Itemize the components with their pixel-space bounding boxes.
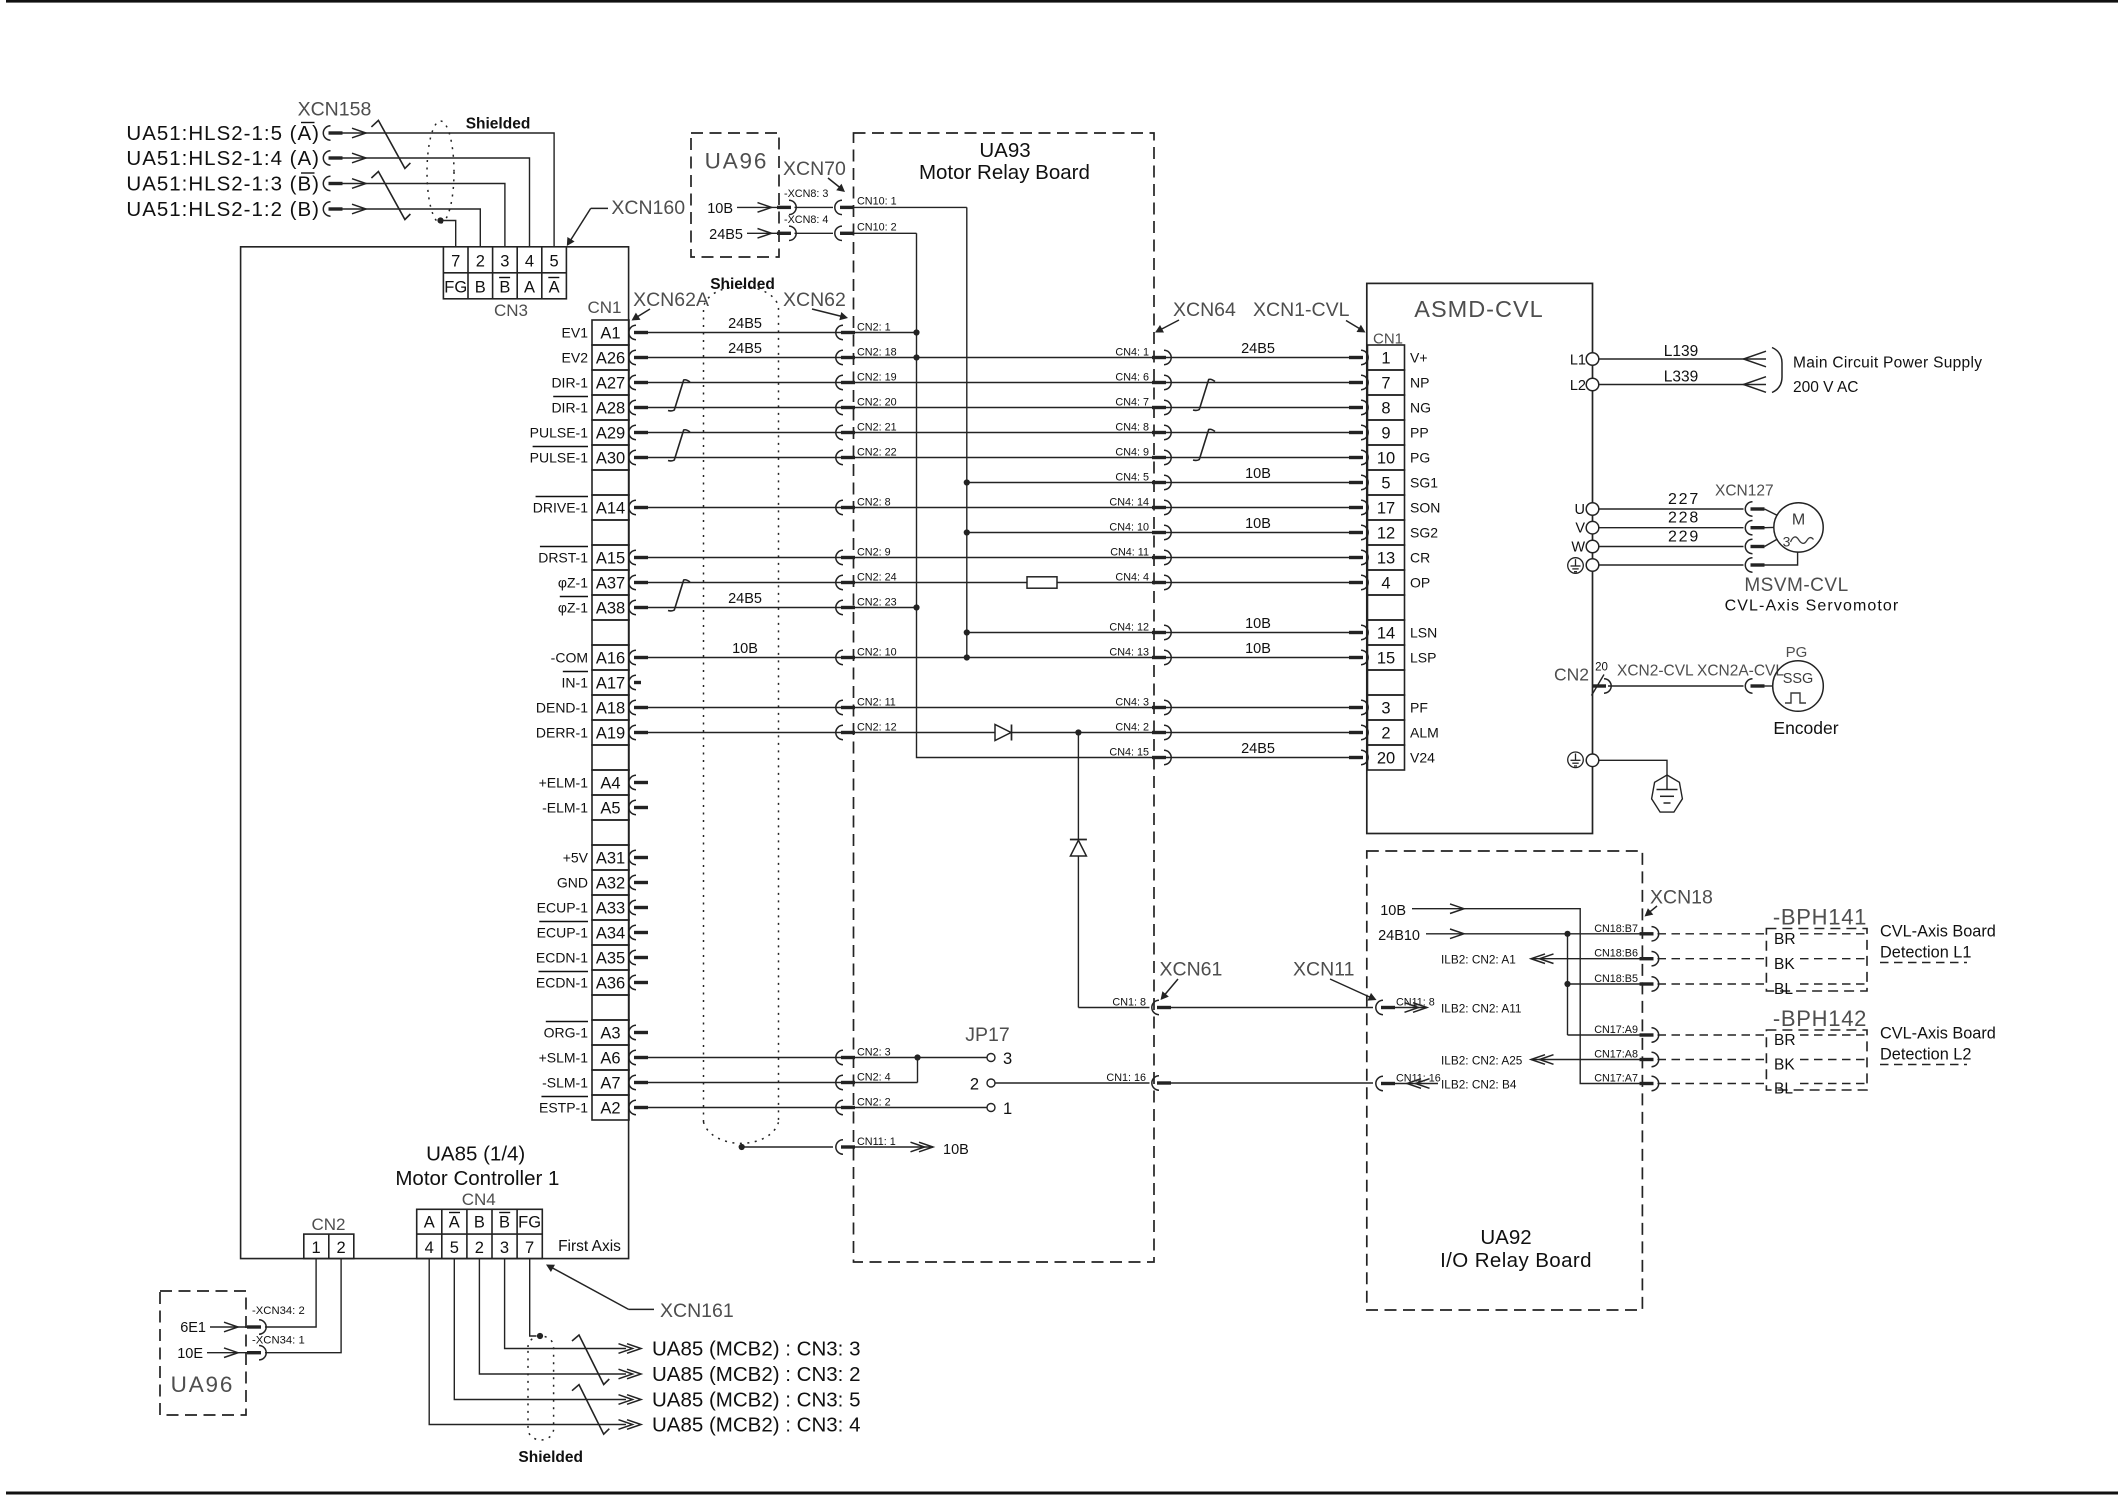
svg-text:A3: A3 bbox=[600, 1024, 620, 1042]
svg-text:CN2: CN2 bbox=[1554, 665, 1589, 685]
pin box empty row 6 bbox=[592, 470, 629, 495]
svg-text:LSP: LSP bbox=[1410, 650, 1436, 666]
connector XCN1-CVL pin row y=482.5 bbox=[1349, 475, 1368, 489]
wire CN4 to UA85 (MCB2) : CN3: 3 bbox=[505, 1259, 626, 1349]
svg-text:CN2: 4: CN2: 4 bbox=[857, 1072, 891, 1084]
connector stub A3 bbox=[629, 1025, 648, 1039]
pin box empty row 12 bbox=[592, 620, 629, 645]
svg-text:2: 2 bbox=[1381, 724, 1390, 742]
svg-text:10B: 10B bbox=[1245, 616, 1271, 632]
svg-text:XCN161: XCN161 bbox=[660, 1300, 734, 1322]
svg-text:1: 1 bbox=[312, 1239, 321, 1257]
connector XCN1-CVL pin row y=582.5 bbox=[1349, 575, 1368, 589]
svg-text:A: A bbox=[524, 279, 535, 297]
svg-text:24B5: 24B5 bbox=[728, 316, 762, 332]
svg-text:CN17:A7: CN17:A7 bbox=[1594, 1073, 1638, 1085]
svg-text:XCN64: XCN64 bbox=[1173, 299, 1236, 321]
svg-text:CN17:A9: CN17:A9 bbox=[1594, 1024, 1638, 1036]
svg-text:2: 2 bbox=[476, 253, 485, 271]
pin box A15 row 9 bbox=[592, 545, 629, 570]
svg-text:GND: GND bbox=[557, 875, 588, 891]
connector stub A36 bbox=[629, 975, 648, 989]
connector CN18:B6 (XCN18) bbox=[1640, 952, 1659, 966]
svg-text:ECDN-1: ECDN-1 bbox=[536, 950, 588, 966]
svg-text:XCN70: XCN70 bbox=[783, 158, 846, 180]
svg-text:A26: A26 bbox=[596, 349, 625, 367]
svg-text:L139: L139 bbox=[1664, 343, 1698, 360]
svg-text:CN4: 9: CN4: 9 bbox=[1115, 447, 1149, 459]
svg-text:A30: A30 bbox=[596, 449, 625, 467]
connector CN4: 6 (XCN64) bbox=[1152, 375, 1171, 389]
svg-text:24B5: 24B5 bbox=[728, 591, 762, 607]
connector CN4: 7 (XCN64) bbox=[1152, 400, 1171, 414]
svg-text:DIR-1: DIR-1 bbox=[551, 375, 588, 391]
svg-text:14: 14 bbox=[1377, 624, 1395, 642]
svg-text:9: 9 bbox=[1381, 424, 1390, 442]
svg-text:DIR-1: DIR-1 bbox=[551, 400, 588, 416]
svg-text:-XCN34: 2: -XCN34: 2 bbox=[252, 1305, 305, 1317]
wire 24B10 branch down bbox=[1567, 934, 1569, 1035]
pin box A27 row 2 bbox=[592, 370, 629, 395]
connector CN2: 12 (XCN62) bbox=[836, 725, 855, 739]
svg-text:1: 1 bbox=[1003, 1100, 1012, 1118]
svg-text:17: 17 bbox=[1377, 499, 1395, 517]
svg-text:CN4: 6: CN4: 6 bbox=[1115, 372, 1149, 384]
pin box A2 row 31 bbox=[592, 1095, 629, 1120]
wire CN2:2 to XCN34:1 bbox=[265, 1259, 341, 1353]
overbars on CN3 B-bar and A-bar bbox=[499, 277, 510, 279]
pin box A1 row 0 bbox=[592, 320, 629, 345]
connector CN18:B7 (XCN18) bbox=[1640, 927, 1659, 941]
dashed wire CN17:A8 to BPH bbox=[1658, 1059, 1767, 1061]
svg-text:A6: A6 bbox=[600, 1049, 620, 1067]
svg-text:XCN62A: XCN62A bbox=[633, 289, 709, 311]
connector CN17:A9 (XCN18) bbox=[1640, 1028, 1659, 1042]
wire UA51 row 2 to CN3 bbox=[352, 153, 366, 163]
pin box A26 row 1 bbox=[592, 345, 629, 370]
shield ellipse (bottom) bbox=[528, 1336, 554, 1440]
svg-text:PF: PF bbox=[1410, 700, 1428, 716]
svg-text:ECUP-1: ECUP-1 bbox=[537, 900, 589, 916]
svg-text:JP17: JP17 bbox=[965, 1024, 1009, 1046]
svg-text:5: 5 bbox=[1381, 474, 1390, 492]
pin box A3 row 28 bbox=[592, 1020, 629, 1045]
JP17 pin 1 bbox=[987, 1104, 995, 1112]
svg-text:BL: BL bbox=[1774, 981, 1793, 998]
svg-text:ILB2: CN2: B4: ILB2: CN2: B4 bbox=[1441, 1078, 1517, 1092]
svg-text:UA51:HLS2-1:2 (B): UA51:HLS2-1:2 (B) bbox=[126, 198, 320, 221]
connector UA51 row 4 bbox=[323, 202, 342, 216]
svg-text:XCN62: XCN62 bbox=[783, 289, 846, 311]
svg-text:SG2: SG2 bbox=[1410, 525, 1438, 541]
wire CN18:B6 out bbox=[1531, 958, 1640, 960]
PE ground glyph (motor) bbox=[1568, 558, 1584, 574]
svg-text:DEND-1: DEND-1 bbox=[536, 700, 588, 716]
svg-text:φZ-1: φZ-1 bbox=[558, 575, 588, 591]
svg-text:Main Circuit Power Supply: Main Circuit Power Supply bbox=[1793, 355, 1982, 372]
connector XCN1-CVL pin row y=407.5 bbox=[1349, 400, 1368, 414]
connector CN11:1 bbox=[836, 1140, 855, 1154]
wires into motor bbox=[1765, 509, 1778, 516]
wire A1/CN2:1 bbox=[647, 332, 917, 334]
svg-text:10B: 10B bbox=[1380, 903, 1406, 919]
svg-text:XCN61: XCN61 bbox=[1160, 959, 1223, 981]
connector stub A17 bbox=[629, 675, 641, 689]
svg-text:I/O Relay Board: I/O Relay Board bbox=[1440, 1249, 1592, 1272]
connector XCN1-CVL pin row y=757.5 bbox=[1349, 750, 1368, 764]
pin box A14 row 7 bbox=[592, 495, 629, 520]
connector stub A5 bbox=[629, 800, 648, 814]
svg-text:A17: A17 bbox=[596, 674, 625, 692]
svg-text:10B: 10B bbox=[943, 1142, 969, 1158]
svg-text:CN1: CN1 bbox=[587, 298, 621, 317]
connector CN10:1 bbox=[795, 206, 834, 208]
svg-text:8: 8 bbox=[1381, 399, 1390, 417]
svg-text:24B10: 24B10 bbox=[1378, 928, 1420, 944]
svg-text:V+: V+ bbox=[1410, 350, 1428, 366]
wire A37 with resistor bbox=[647, 582, 1027, 584]
connector stub A37 bbox=[629, 575, 648, 589]
svg-text:UA92: UA92 bbox=[1480, 1226, 1531, 1249]
connector CN17:A8 (XCN18) bbox=[1640, 1052, 1659, 1066]
svg-text:A38: A38 bbox=[596, 599, 625, 617]
pin box empty row 20 bbox=[592, 820, 629, 845]
svg-text:10B: 10B bbox=[1245, 516, 1271, 532]
dashed wire CN17:A9 to BPH bbox=[1658, 1034, 1767, 1036]
svg-text:A15: A15 bbox=[596, 549, 625, 567]
earth ground symbol bbox=[1652, 775, 1683, 812]
svg-text:4: 4 bbox=[525, 253, 534, 271]
dashed wire CN18:B5 to BPH bbox=[1658, 983, 1767, 985]
svg-text:24B5: 24B5 bbox=[728, 341, 762, 357]
connector CN4: 1 (XCN64) bbox=[1152, 350, 1171, 364]
svg-text:15: 15 bbox=[1377, 649, 1395, 667]
svg-text:B: B bbox=[499, 1214, 510, 1232]
wire A26..A30 rows through to ASMD bbox=[647, 357, 1350, 359]
wire L139 bbox=[1599, 358, 1766, 360]
connector UA51 row 1 bbox=[323, 126, 342, 140]
JP17 pin 2 bbox=[987, 1079, 995, 1087]
shield bundle dotted outline (XCN62A cable) bbox=[704, 287, 779, 1123]
dashed wire CN17:A7 to BPH bbox=[1658, 1083, 1767, 1085]
svg-text:UA85 (1/4): UA85 (1/4) bbox=[426, 1143, 525, 1166]
wires U V W to XCN127 bbox=[1599, 508, 1744, 510]
wire A2/CN2:2 to JP17 pin1 bbox=[647, 1107, 987, 1109]
svg-text:CN1: 8: CN1: 8 bbox=[1112, 997, 1146, 1009]
connector stub A30 bbox=[629, 450, 648, 464]
wire UA51 row 1 to CN3 bbox=[352, 128, 366, 138]
pin box A36 row 26 bbox=[592, 970, 629, 995]
pin box ASMD CN1 10 bbox=[1368, 445, 1405, 470]
connector XCN1-CVL pin row y=632.5 bbox=[1349, 625, 1368, 639]
arrow to ILB2: CN2: A11 bbox=[1395, 1007, 1428, 1009]
pin box ASMD CN1 13 bbox=[1368, 545, 1405, 570]
svg-text:A5: A5 bbox=[600, 799, 620, 817]
svg-text:6E1: 6E1 bbox=[180, 1320, 206, 1336]
wire encoder bbox=[1608, 685, 1744, 687]
connector CN4: 15 (XCN64) bbox=[1152, 750, 1171, 764]
connector CN4: 13 (XCN64) bbox=[1152, 650, 1171, 664]
svg-text:CN2: 8: CN2: 8 bbox=[857, 497, 891, 509]
board ASMD-CVL outline bbox=[1367, 283, 1593, 833]
wire CN4 to UA85 (MCB2) : CN3: 2 bbox=[479, 1259, 626, 1374]
twisted-pair mark CN4:6/7 bbox=[1193, 379, 1215, 410]
svg-text:CN4: 15: CN4: 15 bbox=[1109, 747, 1149, 759]
svg-text:CN4: 13: CN4: 13 bbox=[1109, 647, 1149, 659]
svg-text:CN4: 11: CN4: 11 bbox=[1110, 547, 1149, 559]
svg-text:20: 20 bbox=[1595, 662, 1608, 674]
connector XCN1-CVL pin row y=557.5 bbox=[1349, 550, 1368, 564]
svg-text:BR: BR bbox=[1774, 1032, 1796, 1049]
svg-text:ORG-1: ORG-1 bbox=[544, 1025, 589, 1041]
svg-text:DERR-1: DERR-1 bbox=[536, 725, 588, 741]
connector stub A27 bbox=[629, 375, 648, 389]
svg-text:L1: L1 bbox=[1570, 353, 1586, 369]
connector CN4: 10 (XCN64) bbox=[1152, 525, 1171, 539]
connector CN4: 14 (XCN64) bbox=[1152, 500, 1171, 514]
svg-text:UA85 (MCB2) : CN3: 3: UA85 (MCB2) : CN3: 3 bbox=[652, 1338, 860, 1361]
connector stub A6 bbox=[629, 1050, 648, 1064]
twisted-pair mark CN4:8/9 bbox=[1193, 429, 1215, 460]
connector CN10:2 bbox=[795, 232, 834, 234]
svg-text:PULSE-1: PULSE-1 bbox=[530, 450, 589, 466]
connector stub A26 bbox=[629, 350, 648, 364]
svg-text:UA85 (MCB2) : CN3: 4: UA85 (MCB2) : CN3: 4 bbox=[652, 1414, 860, 1437]
connector XCN1-CVL pin row y=657.5 bbox=[1349, 650, 1368, 664]
svg-text:10B: 10B bbox=[1245, 466, 1271, 482]
svg-text:2: 2 bbox=[337, 1239, 346, 1257]
svg-text:-XCN8: 3: -XCN8: 3 bbox=[784, 188, 828, 200]
svg-text:A33: A33 bbox=[596, 899, 625, 917]
connector CN4: 12 (XCN64) bbox=[1152, 625, 1171, 639]
svg-text:SON: SON bbox=[1410, 500, 1440, 516]
svg-text:+ELM-1: +ELM-1 bbox=[539, 775, 589, 791]
connector CN4 box bbox=[417, 1209, 543, 1258]
connector CN4: 5 (XCN64) bbox=[1152, 475, 1171, 489]
terminals U V W PE on ASMD right edge bbox=[1586, 503, 1599, 516]
svg-text:CN3: CN3 bbox=[494, 301, 528, 320]
svg-text:CN2: 22: CN2: 22 bbox=[857, 447, 897, 459]
pin box A28 row 3 bbox=[592, 395, 629, 420]
svg-text:A7: A7 bbox=[600, 1074, 620, 1092]
svg-text:A19: A19 bbox=[596, 724, 625, 742]
pin box ASMD CN1 4 bbox=[1368, 570, 1405, 595]
wires from 10B bus to XCN64 bbox=[967, 482, 1350, 484]
svg-text:CN2: 23: CN2: 23 bbox=[857, 597, 897, 609]
PE wire to motor bottom bbox=[1765, 552, 1798, 565]
pin box A6 row 29 bbox=[592, 1045, 629, 1070]
svg-text:B: B bbox=[474, 1214, 485, 1232]
svg-text:A16: A16 bbox=[596, 649, 625, 667]
connector CN3 box bbox=[443, 247, 566, 299]
svg-text:13: 13 bbox=[1377, 549, 1395, 567]
svg-text:CN2: 3: CN2: 3 bbox=[857, 1047, 891, 1059]
svg-text:5: 5 bbox=[550, 253, 559, 271]
svg-text:Shielded: Shielded bbox=[466, 116, 531, 133]
connector stub A34 bbox=[629, 925, 648, 939]
svg-text:CN4: 12: CN4: 12 bbox=[1109, 622, 1149, 634]
wire CN4 to UA85 (MCB2) : CN3: 5 bbox=[454, 1259, 626, 1400]
pin box ASMD CN1 2 bbox=[1368, 720, 1405, 745]
wire CN4 pin7 (FG) to shield bbox=[530, 1259, 537, 1336]
svg-text:2: 2 bbox=[475, 1239, 484, 1257]
connector CN1:8 (XCN61) bbox=[1152, 1000, 1171, 1014]
pin box ASMD CN1 3 bbox=[1368, 695, 1405, 720]
svg-text:A34: A34 bbox=[596, 924, 625, 942]
svg-text:U: U bbox=[1575, 502, 1585, 518]
resistor on CN4:4 line bbox=[1027, 577, 1057, 588]
connector stub A7 bbox=[629, 1075, 648, 1089]
diode D2 (vertical, pointing up) bbox=[1070, 839, 1087, 841]
svg-text:PG: PG bbox=[1786, 644, 1808, 661]
svg-text:NP: NP bbox=[1410, 375, 1429, 391]
connector CN2: 23 (XCN62) bbox=[836, 600, 855, 614]
svg-text:XCN2A-CVL: XCN2A-CVL bbox=[1697, 663, 1784, 680]
svg-text:20: 20 bbox=[1377, 749, 1395, 767]
svg-text:3: 3 bbox=[500, 1239, 509, 1257]
pin box ASMD CN1 1 bbox=[1368, 345, 1405, 370]
pin box A7 row 30 bbox=[592, 1070, 629, 1095]
connector CN18:B5 (XCN18) bbox=[1640, 977, 1659, 991]
pin box empty row 17 bbox=[592, 745, 629, 770]
svg-text:UA85 (MCB2) : CN3: 5: UA85 (MCB2) : CN3: 5 bbox=[652, 1389, 860, 1412]
svg-text:BL: BL bbox=[1774, 1081, 1793, 1098]
pin box A17 row 14 bbox=[592, 670, 629, 695]
svg-text:CN1: 16: CN1: 16 bbox=[1106, 1072, 1146, 1084]
connector CN4: 4 (XCN64) bbox=[1152, 575, 1171, 589]
pin box A32 row 22 bbox=[592, 870, 629, 895]
svg-text:A1: A1 bbox=[600, 324, 620, 342]
wire L339 bbox=[1599, 384, 1766, 386]
board UA96 (top) dashed box bbox=[691, 133, 779, 257]
svg-text:ILB2: CN2: A1: ILB2: CN2: A1 bbox=[1441, 953, 1516, 967]
svg-text:DRIVE-1: DRIVE-1 bbox=[533, 500, 588, 516]
svg-text:CN2: 10: CN2: 10 bbox=[857, 647, 897, 659]
board UA93 dashed box bbox=[854, 133, 1155, 1262]
svg-text:PULSE-1: PULSE-1 bbox=[530, 425, 589, 441]
svg-text:M: M bbox=[1792, 512, 1805, 529]
connector CN2: 21 (XCN62) bbox=[836, 425, 855, 439]
svg-text:FG: FG bbox=[444, 279, 467, 297]
wire UA51 row 3 to CN3 bbox=[352, 179, 366, 189]
twisted-pair mark XCN158 b bbox=[371, 172, 410, 220]
pin box A34 row 24 bbox=[592, 920, 629, 945]
connector stub A18 bbox=[629, 700, 648, 714]
connector CN2: 2 (XCN62) bbox=[836, 1100, 855, 1114]
wire 24B5 bus vertical bbox=[917, 233, 1350, 757]
svg-text:1: 1 bbox=[1381, 349, 1390, 367]
wire UA51 row 4 to CN3 bbox=[352, 204, 366, 214]
svg-text:Detection L1: Detection L1 bbox=[1880, 944, 1971, 962]
pin box ASMD CN1 8 bbox=[1368, 395, 1405, 420]
svg-text:OP: OP bbox=[1410, 575, 1430, 591]
connector CN1:16 bbox=[1152, 1076, 1171, 1090]
svg-text:CN2: 1: CN2: 1 bbox=[857, 322, 891, 334]
connector XCN1-CVL pin row y=357.5 bbox=[1349, 350, 1368, 364]
svg-text:CN2: 18: CN2: 18 bbox=[857, 347, 897, 359]
svg-text:CN4: 7: CN4: 7 bbox=[1115, 397, 1149, 409]
board -BPH142 dashed box bbox=[1766, 1030, 1867, 1090]
svg-text:Shielded: Shielded bbox=[710, 276, 775, 293]
svg-text:10B: 10B bbox=[707, 201, 733, 217]
svg-text:4: 4 bbox=[425, 1239, 434, 1257]
connector XCN8:4 bbox=[777, 226, 796, 240]
svg-text:CN4: 10: CN4: 10 bbox=[1109, 522, 1149, 534]
svg-text:PP: PP bbox=[1410, 425, 1429, 441]
wire CN11:1 to 10B bbox=[855, 1146, 934, 1148]
svg-text:CR: CR bbox=[1410, 550, 1430, 566]
svg-text:W: W bbox=[1571, 540, 1585, 556]
svg-text:CN2: 20: CN2: 20 bbox=[857, 397, 897, 409]
svg-text:EV2: EV2 bbox=[562, 350, 589, 366]
svg-text:NG: NG bbox=[1410, 400, 1431, 416]
svg-text:CVL-Axis Board: CVL-Axis Board bbox=[1880, 1025, 1996, 1043]
svg-text:12: 12 bbox=[1377, 524, 1395, 542]
pin box ASMD CN1 9 bbox=[1368, 420, 1405, 445]
svg-text:IN-1: IN-1 bbox=[562, 675, 589, 691]
pin box A37 row 10 bbox=[592, 570, 629, 595]
svg-text:3: 3 bbox=[1003, 1050, 1012, 1068]
svg-text:CN4: 2: CN4: 2 bbox=[1115, 722, 1149, 734]
dashed wire CN18:B6 to BPH bbox=[1658, 958, 1767, 960]
board UA96 (bottom) dashed box bbox=[160, 1291, 246, 1415]
board -BPH141 dashed box bbox=[1766, 929, 1867, 992]
svg-text:MSVM-CVL: MSVM-CVL bbox=[1744, 575, 1848, 596]
connector stub A19 bbox=[629, 725, 648, 739]
motor M circle bbox=[1774, 503, 1823, 552]
junction dots on 24B5 bus bbox=[913, 329, 919, 335]
svg-text:CN10: 1: CN10: 1 bbox=[857, 195, 897, 207]
connector stub A16 bbox=[629, 650, 648, 664]
svg-text:ESTP-1: ESTP-1 bbox=[539, 1100, 588, 1116]
wire 10B bus vertical bbox=[966, 207, 968, 657]
svg-text:EV1: EV1 bbox=[562, 325, 589, 341]
svg-text:L2: L2 bbox=[1570, 378, 1586, 394]
svg-text:BK: BK bbox=[1774, 956, 1795, 973]
connector XCN1-CVL pin row y=532.5 bbox=[1349, 525, 1368, 539]
dashed wire CN18:B7 to BPH bbox=[1658, 933, 1767, 935]
connector XCN34:2 bbox=[247, 1320, 266, 1334]
svg-text:CN2: 12: CN2: 12 bbox=[857, 722, 897, 734]
svg-text:CN11: 1: CN11: 1 bbox=[857, 1136, 896, 1148]
svg-text:UA96: UA96 bbox=[171, 1372, 234, 1397]
connector CN2: 24 (XCN62) bbox=[836, 575, 855, 589]
svg-text:CN10: 2: CN10: 2 bbox=[857, 221, 897, 233]
svg-text:Motor Relay Board: Motor Relay Board bbox=[919, 161, 1090, 184]
svg-text:A14: A14 bbox=[596, 499, 625, 517]
svg-text:UA96: UA96 bbox=[705, 149, 768, 174]
svg-text:ECDN-1: ECDN-1 bbox=[536, 975, 588, 991]
wire CN10:1 to 10B bus bbox=[854, 206, 967, 208]
svg-text:CN2: 11: CN2: 11 bbox=[857, 697, 896, 709]
twisted-pair mark MCB2 b bbox=[572, 1385, 609, 1435]
connector stub A28 bbox=[629, 400, 648, 414]
svg-text:XCN158: XCN158 bbox=[298, 99, 372, 121]
svg-text:Detection L2: Detection L2 bbox=[1880, 1046, 1971, 1064]
connector CN2: 20 (XCN62) bbox=[836, 400, 855, 414]
svg-text:XCN1-CVL: XCN1-CVL bbox=[1253, 299, 1350, 321]
wire CN4 to UA85 (MCB2) : CN3: 4 bbox=[429, 1259, 626, 1425]
svg-text:A18: A18 bbox=[596, 699, 625, 717]
wire A38/CN2:23 bbox=[647, 607, 917, 609]
svg-text:CN2: 21: CN2: 21 bbox=[857, 422, 897, 434]
connector XCN8:3 bbox=[777, 200, 796, 214]
svg-text:7: 7 bbox=[525, 1239, 534, 1257]
svg-text:ALM: ALM bbox=[1410, 725, 1439, 741]
svg-text:A: A bbox=[549, 279, 560, 297]
connector CN2: 22 (XCN62) bbox=[836, 450, 855, 464]
connector CN4: 2 (XCN64) bbox=[1152, 725, 1171, 739]
